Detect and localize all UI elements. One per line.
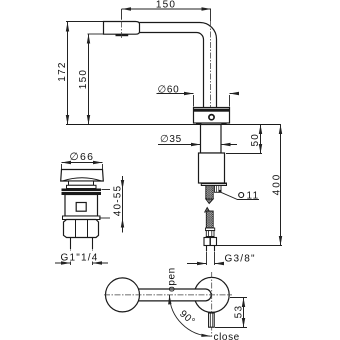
drain cap underside curve (63, 178, 102, 181)
hose ferrule (206, 228, 215, 231)
braided hose lower segment break tip (205, 208, 211, 213)
handle horizontal centerline (104, 294, 232, 296)
dimension 150 left bottom arrowhead (87, 115, 90, 125)
spout aerator tip body (104, 22, 140, 35)
escutcheon left foot pad (196, 123, 202, 125)
braided hose upper segment (206, 186, 213, 200)
dimension 400 bottom arrowhead (279, 236, 282, 246)
dimension 400 top arrowhead (279, 125, 282, 135)
diameter 11 callout circle glyph (239, 193, 244, 198)
svg-text:open: open (166, 267, 177, 292)
drain body (65, 195, 98, 217)
svg-text:G3/8": G3/8" (225, 254, 256, 265)
riser centerline (210, 21, 212, 111)
dimension G3/8 right tail with arrowhead (215, 263, 224, 265)
dimension 53 top arrowhead (242, 298, 245, 308)
dimension 150 left top arrowhead (87, 34, 90, 44)
dimension G1 1/4 left tail with arrowhead (55, 262, 71, 264)
dimension 40-55 bottom extension line (99, 217, 110, 219)
handle stem closed position (209, 313, 215, 327)
svg-text:11: 11 (247, 191, 260, 202)
hose compression fitting (206, 231, 214, 238)
extension line tailpiece right (92, 250, 94, 266)
svg-text:172: 172 (57, 61, 68, 82)
escutcheon dark groove band (194, 109, 230, 112)
drain tailpiece (70, 238, 72, 249)
escutcheon right foot pad (221, 123, 226, 125)
extension line G3/8 left (206, 252, 208, 266)
escutcheon body (194, 108, 230, 124)
spout horizontal tube and bend into riser (140, 23, 217, 108)
dimension 53 top extension line (230, 297, 247, 299)
drain cap dome (61, 170, 104, 182)
svg-text:40-55: 40-55 (113, 185, 124, 217)
handle hub escutcheon circle (194, 277, 229, 312)
dimension diameter 35 left tail with arrowhead (158, 144, 201, 146)
extension line riser centerline to top dim (210, 9, 212, 21)
svg-text:150: 150 (78, 69, 89, 90)
dimension 40-55 upper arrowhead (121, 180, 124, 190)
handle ball knob (106, 278, 140, 312)
dimension 40-55 vertical line (122, 176, 124, 233)
drain lower washer (63, 216, 101, 220)
deck mounting surface line (66, 124, 281, 126)
drain cap neck (69, 181, 94, 185)
dimension G3/8 left tail with arrowhead (187, 263, 207, 265)
drain flange dark band (62, 189, 102, 192)
svg-text:∅35: ∅35 (160, 134, 182, 145)
svg-text:400: 400 (271, 173, 282, 196)
svg-text:150: 150 (156, 0, 176, 11)
dimension 53 vertical line (243, 298, 245, 328)
dimension 172 bottom arrowhead (66, 115, 69, 125)
extension line escutcheon left edge (193, 95, 195, 107)
dimension 53 bottom extension line (215, 327, 247, 329)
dimension 53 bottom arrowhead (242, 318, 245, 328)
svg-text:90°: 90° (177, 309, 197, 328)
dimension 50 extension line at body step (226, 153, 262, 155)
svg-text:close: close (214, 332, 240, 340)
dimension 172 top arrowhead (66, 22, 69, 32)
dimension 150 top right arrowhead (202, 7, 212, 10)
dimension 150 left vertical line (88, 34, 90, 125)
drain upper washer (67, 185, 97, 188)
hose end nut (204, 238, 217, 246)
svg-text:50: 50 (250, 133, 261, 147)
dimension 172 vertical line (67, 22, 69, 125)
drain dim 66 left arrowhead (62, 161, 72, 164)
dimension diameter 60 line left tail with arrowhead (157, 93, 194, 95)
dimension 400 bottom extension line (217, 245, 283, 247)
90 degree swing arc (169, 295, 210, 336)
valve body under counter (199, 153, 225, 183)
extension line spout top to 172 dim (66, 21, 104, 23)
handle lever bar (138, 289, 211, 301)
handle vertical centerline (211, 272, 213, 337)
dimension G1 1/4 right tail with arrowhead (93, 262, 109, 264)
extension line drain cap left (61, 164, 63, 169)
drain diameter 66 dim line (62, 162, 103, 164)
aerator outlet dark ring (116, 34, 129, 36)
drain body square hole (76, 203, 86, 212)
G3/8 threaded pipe end (206, 246, 208, 252)
dimension 40-55 top extension line (102, 189, 111, 191)
dimension 150 top line (122, 8, 212, 10)
extension line tailpiece left (70, 250, 72, 266)
dimension 50 top arrowhead (259, 125, 262, 135)
swing arc bottom arrowhead (201, 334, 211, 337)
valve body bottom flange (201, 183, 226, 186)
mounting stud 11 mm (215, 186, 222, 193)
extension line escutcheon right edge (229, 95, 231, 107)
svg-text:∅66: ∅66 (70, 151, 95, 163)
drain hex nut (64, 220, 99, 238)
drain hex nut facet lines (75, 220, 77, 238)
leader line for diameter 11 callout (221, 192, 259, 199)
extension line spout bottom to 150 dim (88, 33, 104, 35)
shank below deck (201, 125, 222, 154)
extension line aerator centerline to top dim (121, 9, 123, 19)
extension line drain cap right (102, 164, 104, 169)
aerator centerline (121, 11, 123, 38)
escutcheon set screw (209, 115, 214, 120)
svg-text:53: 53 (234, 305, 245, 319)
dimension 400 vertical line (280, 125, 282, 246)
swing arc top arrowhead (168, 295, 171, 305)
dimension 50 vertical line (260, 125, 262, 154)
dimension 40-55 lower arrowhead (121, 218, 124, 228)
braided hose lower segment (206, 211, 213, 228)
dimension diameter 35 right tail with arrowhead (221, 144, 237, 146)
svg-text:G1"1/4: G1"1/4 (61, 253, 99, 264)
dimension 50 bottom arrowhead (259, 144, 262, 154)
dimension G1 1/4 label background (61, 251, 100, 262)
dimension diameter 60 line right tail with arrowhead (230, 93, 239, 95)
dimension 150 top left arrowhead (122, 7, 132, 10)
drain dim 66 right arrowhead (93, 161, 103, 164)
hose upper break tip (206, 199, 213, 204)
extension line G3/8 right (214, 252, 216, 266)
